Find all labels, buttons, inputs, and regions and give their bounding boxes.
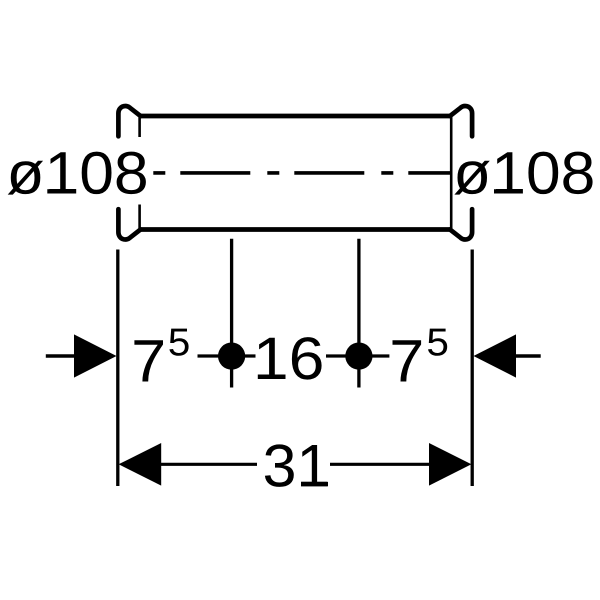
dimension 7.5 right arrowhead xyxy=(474,334,517,377)
dimension 31 left arrowhead xyxy=(119,443,162,486)
dimension superscript 5 right xyxy=(428,329,447,356)
dimension line segment at left bead dot xyxy=(198,354,256,357)
press bead bottom left xyxy=(118,209,140,239)
press bead top left xyxy=(118,106,140,136)
centre line dash-dot xyxy=(153,171,451,175)
left end face edge lower segment xyxy=(138,205,141,229)
extension line left xyxy=(116,250,119,487)
serif foot of 1 in 31 xyxy=(301,482,328,486)
dimension text 31 xyxy=(265,444,327,487)
dimension text 7 right xyxy=(393,340,422,381)
dimension text 7 left xyxy=(134,340,163,381)
dimension 7.5 right arrow tail xyxy=(516,354,541,358)
extension line bead centre right xyxy=(357,239,360,388)
coupling bottom outline xyxy=(141,227,451,232)
press bead bottom right xyxy=(450,209,472,239)
dimension text 16 xyxy=(258,337,322,380)
dimension 7.5 left arrow tail xyxy=(46,354,75,358)
label diameter left xyxy=(8,152,146,195)
dimension 31 line right xyxy=(330,463,429,466)
dimension line segment at right bead dot xyxy=(326,354,389,357)
dimension 31 right arrowhead xyxy=(429,443,471,486)
dimension superscript 5 left xyxy=(169,329,188,356)
extension line bead centre left xyxy=(230,239,233,388)
left end face edge upper segment xyxy=(138,118,141,138)
serif foot of 1 in left diameter label xyxy=(47,189,76,193)
dimension 31 line left xyxy=(161,463,257,466)
dimension 7.5 left arrowhead xyxy=(74,334,117,377)
serif foot of 1 in right diameter label xyxy=(494,189,523,193)
extension line right xyxy=(471,250,474,487)
label diameter right xyxy=(454,152,592,195)
right end face edge xyxy=(450,117,453,231)
bead centre dot right xyxy=(345,343,372,370)
bead centre dot left xyxy=(218,343,245,370)
coupling top outline xyxy=(141,114,451,119)
press bead top right xyxy=(450,106,472,136)
serif foot of 1 in 16 xyxy=(260,375,285,379)
